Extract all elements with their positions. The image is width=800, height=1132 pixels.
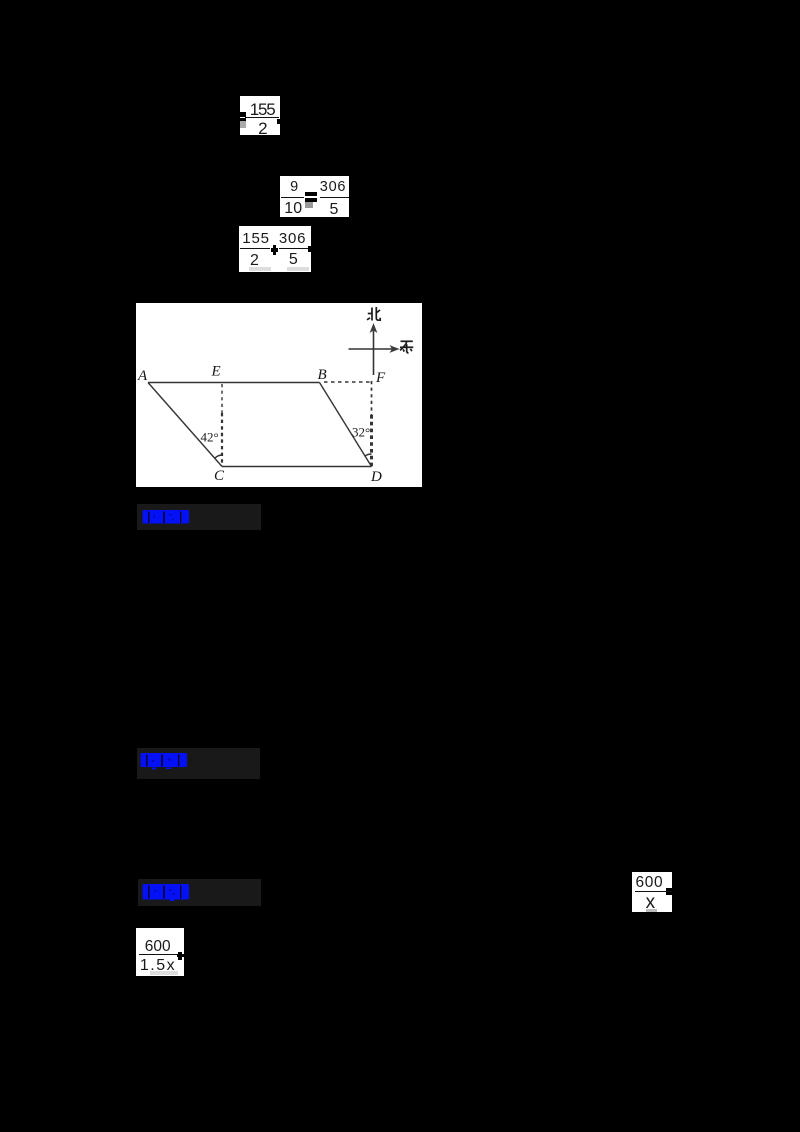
svg-text:42°: 42° bbox=[201, 430, 219, 445]
svg-text:32°: 32° bbox=[352, 425, 370, 440]
svg-text:A: A bbox=[137, 368, 148, 384]
svg-text:C: C bbox=[214, 468, 225, 484]
svg-text:F: F bbox=[375, 370, 386, 386]
svg-text:E: E bbox=[211, 364, 221, 380]
svg-text:B: B bbox=[318, 367, 327, 383]
svg-text:D: D bbox=[370, 469, 382, 485]
